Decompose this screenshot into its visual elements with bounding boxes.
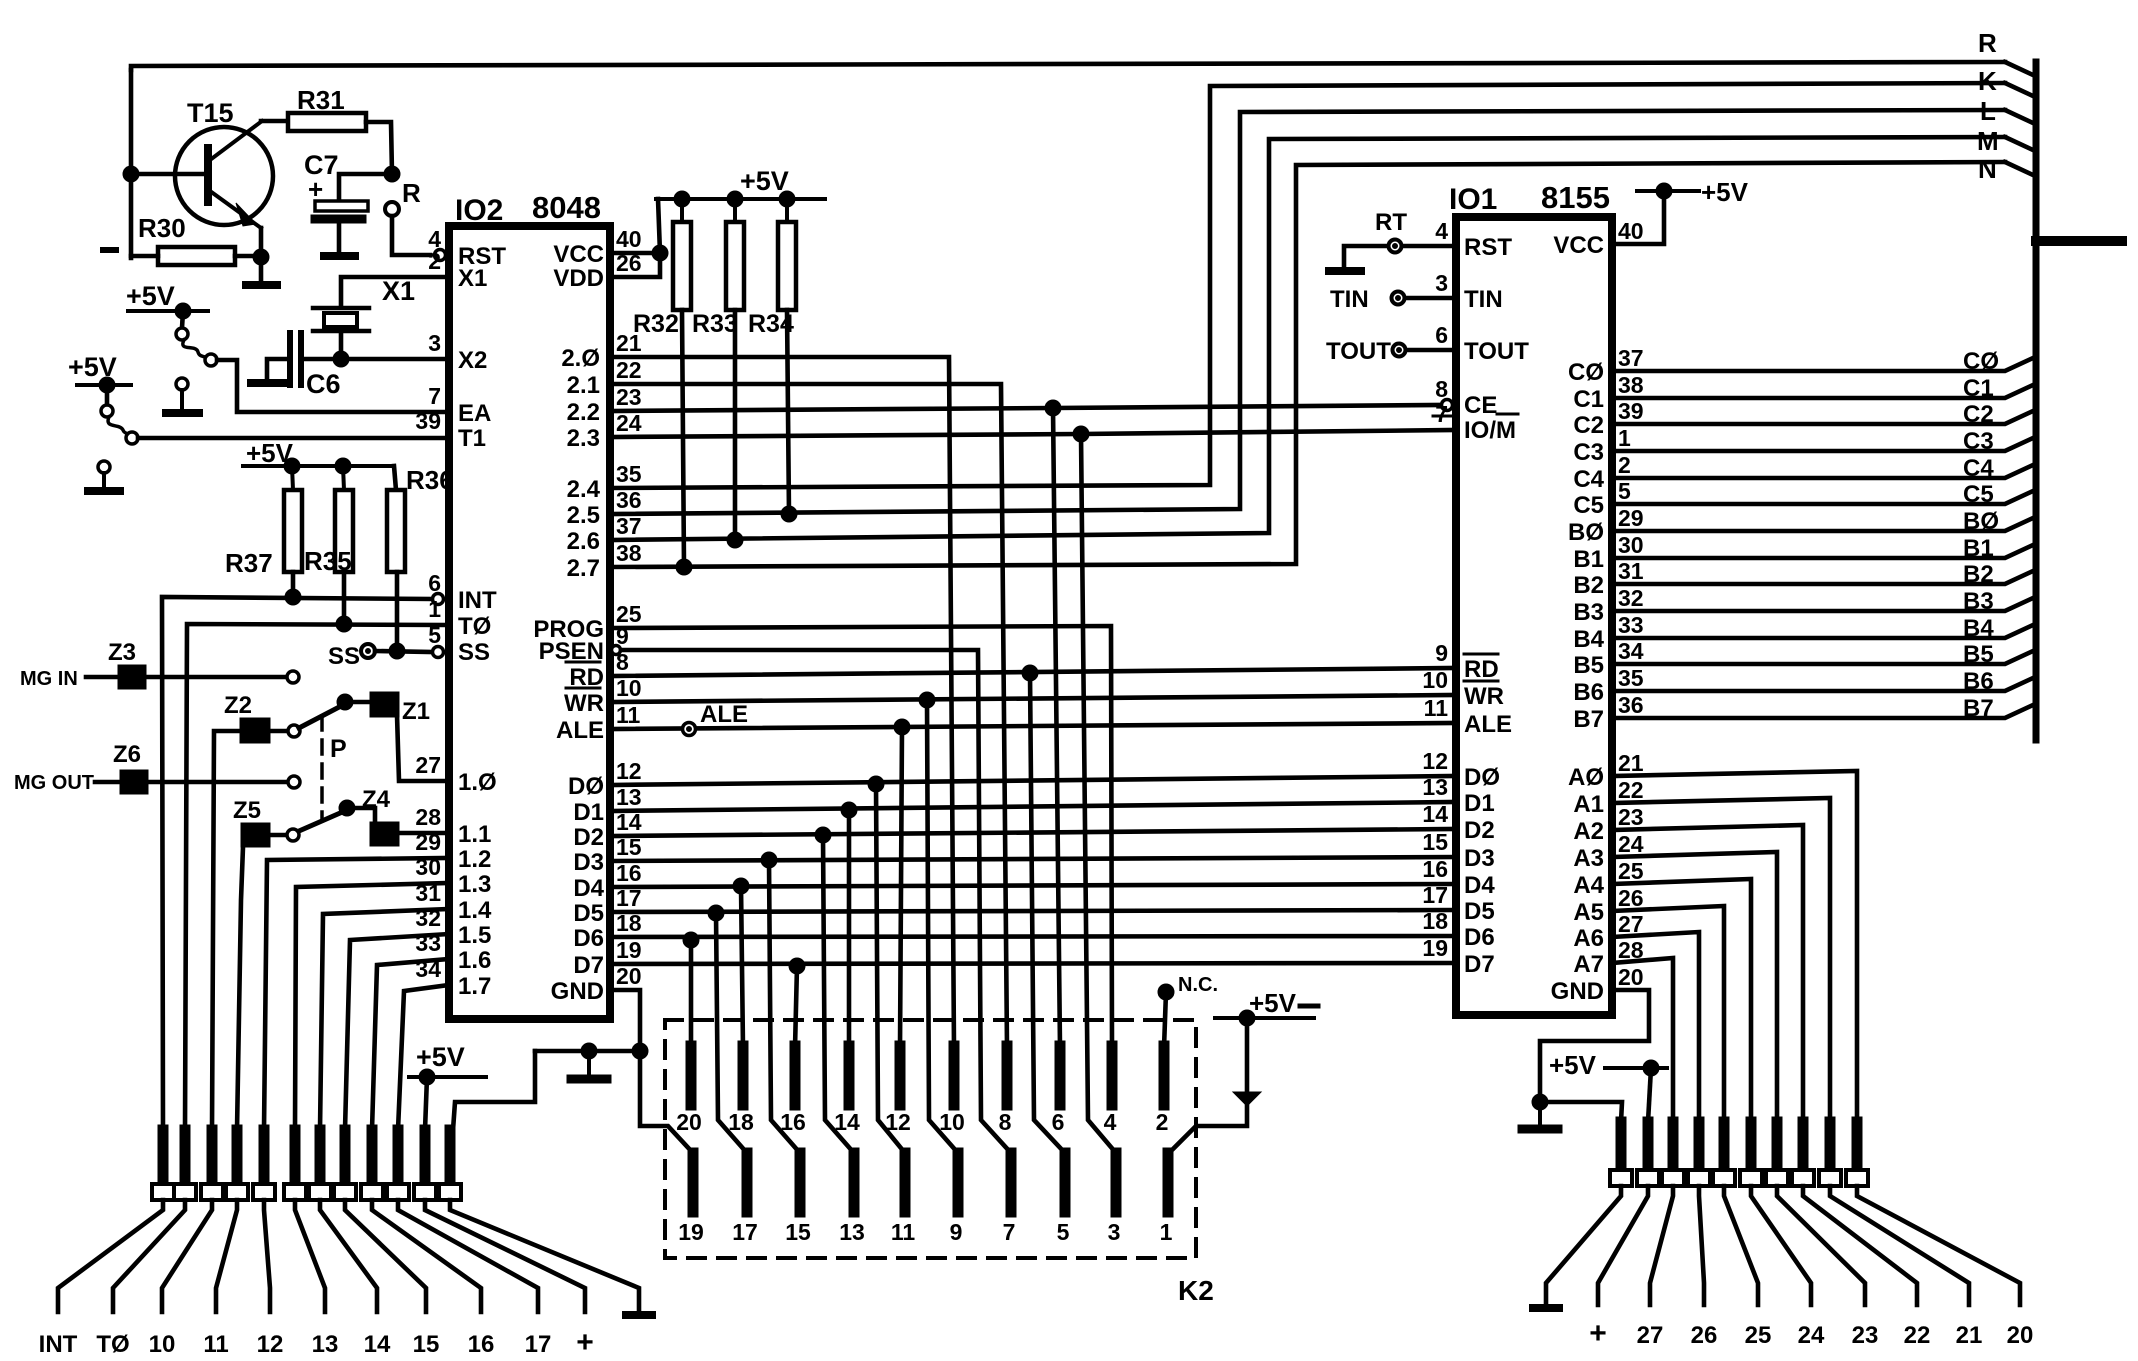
wire INT line to left fan	[162, 597, 433, 1130]
svg-text:+5V: +5V	[1701, 177, 1749, 207]
svg-text:36: 36	[616, 487, 642, 513]
svg-text:12: 12	[616, 758, 642, 784]
terminal pin ⊥ (left fan)	[439, 1130, 461, 1200]
svg-text:MG IN: MG IN	[20, 668, 78, 690]
svg-text:16: 16	[1422, 856, 1448, 882]
wire A5 to right fan	[1612, 906, 1724, 1122]
svg-text:K2: K2	[1178, 1275, 1214, 1306]
wire R31 to node R	[366, 122, 392, 174]
pin 39 T1 of IO2 (label)	[415, 408, 486, 452]
svg-text:18: 18	[728, 1109, 754, 1135]
K2 pin 15 (bottom)	[785, 1153, 811, 1245]
terminal pin 24 (right fan)	[1740, 1122, 1762, 1186]
K2 pin 14 (top)	[834, 1046, 860, 1135]
wire 2.5 to bus line L	[610, 110, 2005, 514]
wire RD branch to K2 pin 5	[1030, 673, 1065, 1153]
svg-text:22: 22	[1904, 1322, 1931, 1349]
wire RD net IO2 to IO1	[610, 668, 1456, 676]
svg-text:D3: D3	[1464, 845, 1495, 872]
jack Z1	[370, 692, 430, 725]
ground below C7	[324, 252, 355, 260]
wire to terminal 14	[320, 1200, 377, 1312]
svg-text:2.2: 2.2	[567, 399, 600, 426]
svg-text:38: 38	[1618, 372, 1644, 398]
svg-text:VCC: VCC	[553, 241, 604, 268]
svg-text:40: 40	[1618, 218, 1644, 244]
wire D4 net IO2 to IO1	[610, 884, 1456, 887]
svg-text:A7: A7	[1573, 951, 1604, 978]
wire D2 branch to K2	[823, 835, 854, 1153]
jumper contact circle	[176, 328, 188, 340]
svg-text:2.7: 2.7	[567, 555, 600, 582]
svg-text:20: 20	[1618, 964, 1644, 990]
svg-text:32: 32	[1618, 585, 1644, 611]
ground at IO1 GND	[1522, 1102, 1558, 1129]
svg-text:2.4: 2.4	[567, 476, 601, 503]
svg-text:D1: D1	[1464, 790, 1495, 817]
terminal pin 11 (left fan)	[226, 1130, 248, 1200]
wire X2 pin line	[305, 357, 449, 362]
pin 7 IO/M of IO1 (label)	[1433, 401, 1518, 444]
jumper contact circle	[101, 405, 113, 417]
+5V supply (EA jumper)	[126, 281, 208, 319]
pin 31 B2 of IO1 (label)	[1573, 558, 1643, 599]
pin 11 ALE of IO2 (label)	[556, 702, 641, 744]
node R34/2.5	[781, 506, 797, 522]
pin 35 B6 of IO1 (label)	[1573, 665, 1643, 706]
svg-text:R31: R31	[297, 85, 345, 115]
jack Z6	[113, 741, 148, 794]
wire to terminal 24 (right fan)	[1751, 1186, 1811, 1305]
svg-text:B5: B5	[1573, 652, 1604, 679]
capacitor C7	[304, 150, 368, 223]
svg-text:N: N	[1978, 154, 1997, 184]
svg-text:B2: B2	[1963, 561, 1994, 588]
svg-text:20: 20	[2007, 1322, 2034, 1349]
svg-text:21: 21	[1956, 1322, 1983, 1349]
node D1 branch	[841, 802, 857, 818]
svg-text:4: 4	[1435, 218, 1448, 244]
terminal pin TØ (left fan)	[174, 1130, 196, 1200]
pin 18 D6 of IO2 (label)	[573, 910, 641, 952]
wire to terminal 10	[162, 1200, 212, 1312]
svg-text:D5: D5	[573, 900, 604, 927]
svg-text:D5: D5	[1464, 898, 1495, 925]
contact circle Z2	[288, 725, 300, 737]
svg-text:GND: GND	[551, 978, 604, 1005]
wire +5V to right fan terminal	[1648, 1068, 1651, 1122]
pin 13 D1 of IO2 (label)	[573, 784, 641, 826]
wire C5 from IO1 to bus	[1612, 491, 2033, 504]
svg-text:SS: SS	[328, 643, 360, 670]
svg-text:+: +	[308, 174, 323, 204]
svg-text:11: 11	[891, 1219, 916, 1245]
svg-text:DØ: DØ	[568, 773, 604, 800]
svg-text:9: 9	[1435, 640, 1448, 666]
svg-text:B4: B4	[1963, 615, 1994, 642]
svg-text:WR: WR	[1464, 683, 1504, 710]
node D2 branch	[815, 827, 831, 843]
svg-text:20: 20	[676, 1109, 702, 1135]
svg-text:1: 1	[428, 596, 441, 622]
wire 2.2 to CE of IO1	[610, 405, 1442, 411]
svg-text:30: 30	[415, 854, 441, 880]
svg-text:Z6: Z6	[113, 741, 141, 768]
svg-text:32: 32	[415, 905, 441, 931]
svg-text:Z2: Z2	[224, 692, 252, 719]
wire R34 to 2.5 line	[787, 310, 789, 514]
terminal pin 22 (right fan)	[1792, 1122, 1814, 1186]
wire to terminal 20 (right fan)	[1857, 1186, 2020, 1305]
wire 1.2 to left fan	[264, 858, 449, 1130]
svg-text:19: 19	[1422, 935, 1448, 961]
svg-text:34: 34	[415, 956, 441, 982]
svg-text:D6: D6	[573, 925, 604, 952]
K2 pin 19 (bottom)	[678, 1153, 704, 1245]
pin 6 INT of IO2 (label)	[428, 570, 497, 614]
pin 10 WR of IO2 (label)	[564, 675, 642, 717]
wire arm to Z1	[345, 700, 370, 705]
svg-text:R32: R32	[633, 310, 679, 338]
svg-text:R: R	[1978, 28, 1997, 58]
node R36/SS	[389, 643, 405, 659]
node D7 branch	[789, 958, 805, 974]
SS connector	[328, 643, 375, 670]
wire Z2 to left fan	[212, 731, 240, 1130]
wire VCC pin 40 of IO1	[1612, 191, 1664, 244]
wire Z5 to contact	[270, 833, 287, 838]
ground terminal (left fan)	[626, 1311, 652, 1319]
pin 21 2.Ø of IO2 (label)	[561, 330, 641, 372]
K2 pin 16 (top)	[780, 1046, 806, 1135]
svg-text:19: 19	[678, 1219, 704, 1245]
svg-text:CØ: CØ	[1568, 359, 1604, 386]
svg-text:B3: B3	[1963, 588, 1994, 615]
terminal pin 25 (right fan)	[1713, 1122, 1735, 1186]
bus entry R	[2005, 62, 2033, 75]
svg-text:26: 26	[1691, 1322, 1718, 1349]
svg-text:RST: RST	[1464, 234, 1512, 261]
wire base vertical to R30	[131, 254, 158, 259]
terminal pin 13 (left fan)	[284, 1130, 306, 1200]
wire 2.4 to bus line K	[610, 83, 2005, 488]
wire MG OUT line	[95, 780, 287, 785]
+5V supply bottom left	[409, 1042, 486, 1085]
bus entry M	[2005, 137, 2033, 150]
jumper contact circle 2	[126, 432, 138, 444]
svg-text:C3: C3	[1963, 428, 1994, 455]
svg-text:12: 12	[1422, 748, 1448, 774]
wire R-net top rail from transistor base to right bus	[131, 62, 2005, 70]
wire R32 to 2.7 line	[682, 310, 684, 567]
wire R35 to T0 line	[342, 572, 347, 624]
wire A2 to right fan	[1612, 825, 1803, 1122]
svg-text:Z1: Z1	[402, 698, 430, 725]
pin 25 PROG of IO2 (label)	[533, 601, 641, 643]
svg-text:B7: B7	[1963, 695, 1994, 722]
svg-text:5: 5	[1618, 478, 1631, 504]
resistor R34	[748, 199, 796, 338]
wire C3 from IO1 to bus	[1612, 438, 2033, 451]
svg-text:14: 14	[364, 1331, 391, 1358]
svg-text:39: 39	[1618, 398, 1644, 424]
wire +5V to left fan terminal	[425, 1077, 427, 1130]
wire GND pin 20 of IO1	[1540, 990, 1649, 1102]
svg-text:BØ: BØ	[1963, 508, 1999, 535]
pin 35 2.4 of IO2 (label)	[567, 461, 642, 503]
svg-text:EA: EA	[458, 400, 491, 427]
svg-text:+: +	[576, 1326, 594, 1359]
wire B5 from IO1 to bus	[1612, 651, 2033, 664]
wire TOUT pin	[1406, 348, 1456, 353]
node D4 branch	[733, 878, 749, 894]
svg-text:D2: D2	[1464, 817, 1495, 844]
node D0 branch	[868, 776, 884, 792]
svg-text:13: 13	[616, 784, 642, 810]
svg-text:31: 31	[415, 880, 441, 906]
svg-text:WR: WR	[564, 690, 604, 717]
pin 30 1.3 of IO2 (label)	[415, 854, 491, 898]
pin 39 C2 of IO1 (label)	[1573, 398, 1643, 439]
svg-text:39: 39	[415, 408, 441, 434]
svg-text:D4: D4	[573, 875, 604, 902]
terminal RT	[1375, 209, 1407, 253]
svg-text:AØ: AØ	[1568, 764, 1604, 791]
wire D6 branch to K2	[689, 940, 694, 1048]
grounded pin below T1 jumper	[88, 461, 120, 491]
node ALE branch	[894, 719, 910, 735]
svg-text:24: 24	[1798, 1322, 1825, 1349]
svg-text:27: 27	[1637, 1322, 1664, 1349]
pin 28 1.1 of IO2 (label)	[415, 804, 491, 848]
wire to terminal 27 (right fan)	[1650, 1186, 1673, 1305]
svg-text:10: 10	[149, 1331, 176, 1358]
svg-text:1.7: 1.7	[458, 973, 491, 1000]
svg-text:Z5: Z5	[233, 797, 261, 824]
wire arm to Z4	[347, 808, 375, 822]
wire jumper to EA pin	[217, 360, 449, 412]
svg-text:2: 2	[428, 248, 441, 274]
svg-text:D1: D1	[573, 799, 604, 826]
wire base to transistor	[131, 172, 204, 177]
svg-text:B2: B2	[1573, 572, 1604, 599]
svg-text:INT: INT	[458, 587, 497, 614]
svg-text:ALE: ALE	[556, 717, 604, 744]
svg-text:C1: C1	[1963, 375, 1994, 402]
svg-text:16: 16	[780, 1109, 806, 1135]
terminal TOUT	[1326, 338, 1406, 365]
wire B7 from IO1 to bus	[1612, 705, 2033, 718]
pin 20 GND of IO1 (label)	[1551, 964, 1644, 1005]
wire 1.6 to left fan	[372, 959, 449, 1130]
svg-text:1.3: 1.3	[458, 871, 491, 898]
terminal pin 10 (left fan)	[201, 1130, 223, 1200]
wire D2 net IO2 to IO1	[610, 829, 1456, 836]
svg-text:13: 13	[839, 1219, 865, 1245]
K2 pin 3 (bottom)	[1108, 1153, 1121, 1245]
pin 4 RST of IO1 (label)	[1435, 218, 1512, 261]
wire D0 branch to K2	[876, 784, 905, 1153]
wire +5V to K2 pin 1	[1245, 1018, 1250, 1092]
svg-text:+5V: +5V	[416, 1042, 465, 1072]
svg-text:37: 37	[616, 513, 642, 539]
svg-text:C4: C4	[1963, 455, 1994, 482]
wire +5V to jumper contact	[182, 311, 183, 328]
K2 pin 18 (top)	[728, 1046, 754, 1135]
bus bar right	[2033, 62, 2040, 740]
svg-text:2.Ø: 2.Ø	[561, 345, 600, 372]
svg-text:+5V: +5V	[1249, 988, 1297, 1018]
wire D7 branch to K2	[795, 966, 797, 1048]
pin 2 C4 of IO1 (label)	[1573, 452, 1630, 493]
svg-text:2.3: 2.3	[567, 425, 600, 452]
svg-text:MG OUT: MG OUT	[14, 772, 94, 794]
contact circle MG OUT	[288, 776, 300, 788]
terminal pin 15 (left fan)	[334, 1130, 356, 1200]
pin 6 TOUT of IO1 (label)	[1435, 322, 1529, 365]
wire TIN pin	[1405, 296, 1456, 301]
pin 38 C1 of IO1 (label)	[1573, 372, 1643, 413]
svg-text:1.Ø: 1.Ø	[458, 769, 497, 796]
svg-text:Z3: Z3	[108, 639, 136, 666]
pin 10 WR of IO1 (label)	[1422, 667, 1504, 710]
wire A6 to right fan	[1612, 932, 1699, 1122]
IC IO2 8048 body	[449, 190, 610, 1019]
connector K2 outline dashed	[665, 1020, 1214, 1306]
wire 2.6 to bus line M	[610, 137, 2005, 540]
wire C1 from IO1 to bus	[1612, 385, 2033, 398]
wire PSEN to K2 pin 7	[621, 650, 1011, 1153]
svg-text:+5V: +5V	[740, 166, 789, 196]
terminal pin 12 (left fan)	[253, 1130, 275, 1200]
pin 22 2.1 of IO2 (label)	[567, 357, 642, 399]
svg-text:13: 13	[312, 1331, 339, 1358]
wire BØ from IO1 to bus	[1612, 518, 2033, 531]
pin 12 DØ of IO2 (label)	[568, 758, 642, 800]
node switch arm Z1	[337, 694, 353, 710]
svg-text:6: 6	[1435, 322, 1448, 348]
pin 13 D1 of IO1 (label)	[1422, 774, 1494, 817]
svg-text:B1: B1	[1963, 535, 1994, 562]
svg-text:22: 22	[616, 357, 642, 383]
wire crystal to X2 line	[339, 331, 344, 359]
resistor R33	[692, 199, 744, 338]
svg-text:10: 10	[616, 675, 642, 701]
pin 22 A1 of IO1 (label)	[1573, 777, 1643, 818]
node switch arm Z4	[339, 800, 355, 816]
wire to terminal 13	[295, 1200, 325, 1312]
svg-text:2.1: 2.1	[567, 372, 600, 399]
pin 11 ALE of IO1 (label)	[1424, 695, 1512, 738]
wire B3 from IO1 to bus	[1612, 598, 2033, 611]
pin 24 A3 of IO1 (label)	[1573, 831, 1643, 872]
pin 9 PSEN of IO2 (label)	[539, 623, 629, 665]
K2 pin 2 (top)	[1156, 1046, 1169, 1135]
svg-text:C5: C5	[1963, 481, 1994, 508]
crystal X1	[313, 276, 415, 331]
svg-text:20: 20	[616, 963, 642, 989]
ground at IO2 GND	[571, 1051, 607, 1079]
wire 1.5 to left fan	[345, 934, 449, 1130]
pin 40 VCC of IO1 (label)	[1553, 218, 1643, 259]
pin 4 RST of IO2 (label)	[428, 226, 506, 270]
capacitor C6	[290, 333, 341, 399]
wire emitter to R30 node	[259, 228, 264, 257]
wire to terminal TØ	[113, 1200, 185, 1312]
svg-text:35: 35	[616, 461, 642, 487]
node GND right fan	[1532, 1094, 1548, 1110]
svg-text:1.4: 1.4	[458, 897, 492, 924]
svg-text:8: 8	[1435, 376, 1448, 402]
wire to terminal +	[425, 1200, 585, 1312]
wire ALE branch to K2 pin 12	[900, 727, 902, 1048]
svg-text:K: K	[1978, 66, 1997, 96]
wire 2.7 to bus line N	[610, 162, 2005, 567]
ALE test point	[683, 701, 749, 736]
svg-text:8: 8	[999, 1109, 1012, 1135]
pin 38 2.7 of IO2 (label)	[567, 540, 642, 582]
svg-text:+5V: +5V	[126, 281, 175, 311]
wire 2.1 to K2 pin 8	[610, 384, 1007, 1048]
K2 pin 13 (bottom)	[839, 1153, 865, 1245]
jack Z4	[362, 786, 399, 846]
svg-text:ALE: ALE	[700, 701, 748, 728]
wire to terminal 25 (right fan)	[1724, 1186, 1758, 1305]
wire A3 to right fan	[1612, 852, 1777, 1122]
svg-text:29: 29	[1618, 505, 1644, 531]
wire Z2 to contact	[270, 729, 287, 734]
svg-text:11: 11	[1424, 695, 1449, 721]
node D6 branch	[683, 932, 699, 948]
wire WR net IO2 to IO1	[610, 695, 1456, 702]
wire to terminal 22 (right fan)	[1803, 1186, 1917, 1305]
wire A7 to right fan	[1612, 958, 1673, 1122]
svg-text:CE: CE	[1464, 392, 1497, 419]
svg-text:40: 40	[616, 226, 642, 252]
svg-text:R: R	[402, 178, 421, 208]
svg-text:TØ: TØ	[96, 1331, 129, 1358]
bus entry L	[2005, 110, 2033, 123]
terminal SS open circle at IO2 pin 5	[433, 647, 444, 658]
svg-text:DØ: DØ	[1464, 764, 1500, 791]
node GND/ground symbol	[581, 1043, 597, 1059]
svg-text:22: 22	[1618, 777, 1644, 803]
wire RST pin of IO1	[1402, 244, 1456, 249]
pin 31 1.4 of IO2 (label)	[415, 880, 492, 924]
wire D5 branch to K2	[716, 913, 747, 1153]
wire C2 from IO1 to bus	[1612, 411, 2033, 424]
svg-text:11: 11	[203, 1331, 228, 1358]
pin 15 D3 of IO1 (label)	[1422, 829, 1494, 872]
pin 40 VCC of IO2 (label)	[553, 226, 641, 268]
svg-text:2: 2	[1156, 1109, 1169, 1135]
svg-text:27: 27	[415, 752, 441, 778]
svg-text:17: 17	[732, 1219, 758, 1245]
node CE branch	[1045, 400, 1061, 416]
terminal pin + (right fan)	[1637, 1122, 1659, 1186]
wire D3 net IO2 to IO1	[610, 857, 1456, 861]
svg-text:1: 1	[1160, 1219, 1173, 1245]
ground at RT	[1329, 267, 1361, 275]
svg-text:TØ: TØ	[458, 613, 491, 640]
terminal RST open circle at IO2 pin 4	[435, 250, 446, 261]
svg-text:X2: X2	[458, 347, 487, 374]
pin 5 C5 of IO1 (label)	[1573, 478, 1631, 519]
wire CE branch to K2 pin 6	[1053, 408, 1060, 1048]
pin 27 1.Ø of IO2 (label)	[415, 752, 496, 796]
pin 27 A6 of IO1 (label)	[1573, 911, 1643, 952]
wire jumper to T1 pin	[138, 436, 449, 441]
